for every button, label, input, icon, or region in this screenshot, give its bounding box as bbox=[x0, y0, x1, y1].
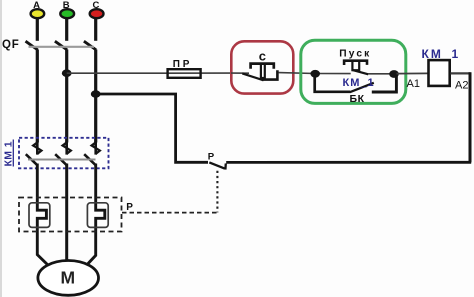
breaker QF linkage bar bbox=[29, 46, 95, 48]
svg-text:М: М bbox=[61, 268, 76, 288]
node on phase C (control return tap) bbox=[91, 90, 101, 98]
svg-text:A1: A1 bbox=[407, 78, 420, 90]
circuit breaker QF label bbox=[2, 39, 20, 51]
stop button SB1 moving blade bbox=[242, 73, 263, 80]
wire control from B to fuse bbox=[67, 72, 168, 74]
motor M1 body bbox=[38, 261, 99, 296]
svg-text:с: с bbox=[259, 48, 266, 63]
wire into stop button bbox=[231, 72, 249, 74]
node on phase B (control tap) bbox=[62, 69, 72, 77]
wire right side drop bbox=[469, 72, 472, 162]
contactor coil KM1 label bbox=[422, 47, 461, 61]
photo edge artifact left bbox=[0, 0, 2, 297]
wire P contact to left drop bbox=[96, 94, 208, 162]
thermal heater element 2 outline bbox=[87, 203, 108, 228]
node left of start button bbox=[310, 70, 320, 78]
thermal relay contact P label bbox=[208, 151, 215, 162]
fuse FU body bbox=[168, 69, 201, 78]
KM1 main contact pole 1 blade bbox=[26, 154, 38, 165]
svg-text:P: P bbox=[208, 151, 215, 162]
KM1 main contact pole 2 blade bbox=[55, 154, 67, 165]
start button SB2 moving blade bbox=[352, 70, 368, 74]
KM1 contacts linkage bar bbox=[28, 159, 96, 161]
svg-text:КМ_1: КМ_1 bbox=[343, 77, 375, 89]
KM1 main contact pole 2 chevrons bbox=[63, 142, 71, 154]
phase terminal A (yellow) bbox=[31, 0, 45, 18]
stop button SB1 actuator cap bbox=[251, 64, 274, 69]
wire start box to coil bbox=[397, 72, 428, 74]
aux contact branch left wire bbox=[315, 74, 351, 92]
phase terminal C (red) bbox=[90, 0, 104, 18]
breaker QF blade pole 1 bbox=[26, 41, 38, 50]
KM1 main contact pole 3 blade bbox=[84, 154, 96, 165]
wire phase B upper bbox=[65, 18, 68, 41]
svg-text:P: P bbox=[126, 202, 133, 213]
wire inside start box right bbox=[368, 73, 397, 75]
fuse FU label ПР bbox=[173, 59, 192, 70]
wire phase C lower with heater step bbox=[86, 164, 105, 266]
wire through fuse bbox=[168, 72, 232, 74]
stop button SB1 fixed contact bracket bbox=[263, 70, 277, 79]
stop button SB1 plunger stem bbox=[261, 65, 265, 78]
svg-text:Пуск: Пуск bbox=[339, 49, 371, 60]
wire phase C mid bbox=[94, 50, 97, 143]
svg-text:A2: A2 bbox=[455, 79, 468, 91]
wire phase C upper bbox=[94, 18, 97, 41]
contactor KM1 vertical label bbox=[3, 140, 15, 167]
KM1 main contact pole 1 upper stub bbox=[36, 141, 39, 155]
KM1 main contact pole 3 upper stub bbox=[94, 141, 97, 155]
wire bottom return bbox=[226, 161, 471, 164]
wire phase B mid bbox=[65, 50, 68, 143]
KM1 main contact pole 1 chevrons bbox=[33, 142, 41, 154]
stop button label с bbox=[259, 48, 266, 63]
thermal relay dashed box bbox=[19, 198, 122, 232]
motor M1 label bbox=[61, 268, 76, 288]
aux contact KM_1 blade bbox=[350, 83, 374, 92]
svg-text:БК: БК bbox=[350, 93, 365, 105]
KM1 main contact pole 3 chevrons bbox=[92, 142, 100, 154]
thermal heater element 1 outline bbox=[29, 203, 50, 228]
start button SB2 plunger stem bbox=[352, 62, 359, 70]
mechanical link dashed horizontal bbox=[122, 212, 219, 214]
thermal relay NC contact blade bbox=[209, 162, 224, 168]
wire phase A mid bbox=[36, 50, 39, 143]
start button highlight box (green) bbox=[301, 40, 406, 103]
phase terminal B (green) bbox=[60, 0, 74, 18]
stop button highlight box (red) bbox=[231, 41, 293, 93]
wire phase A upper bbox=[36, 18, 39, 41]
contactor KM1 dashed outline box bbox=[19, 138, 109, 169]
aux contact branch right wire bbox=[372, 74, 397, 92]
breaker QF blade pole 3 bbox=[84, 41, 96, 50]
wire inside start box left bbox=[315, 73, 351, 75]
wire coil to right drop bbox=[451, 72, 471, 74]
thermal relay P label right bbox=[126, 202, 133, 213]
start button SB2 actuator cap bbox=[344, 61, 367, 65]
contactor coil KM1 body bbox=[429, 60, 450, 86]
mechanical link dotted vertical bbox=[216, 171, 218, 213]
start button label Пуск bbox=[339, 49, 371, 60]
aux contact label КМ_1 bbox=[343, 77, 375, 89]
svg-text:QF: QF bbox=[2, 39, 20, 51]
wire phase A lower with heater step bbox=[37, 164, 49, 266]
node right of start button bbox=[389, 70, 399, 78]
aux contact label БК bbox=[350, 93, 365, 105]
wire phase B lower bbox=[65, 164, 68, 262]
wire stop button to start button bbox=[279, 72, 315, 75]
coil terminal label A2 bbox=[455, 79, 468, 91]
breaker QF blade pole 2 bbox=[55, 41, 67, 50]
thermal relay NC contact tick bbox=[224, 163, 227, 169]
coil terminal label A1 bbox=[407, 78, 420, 90]
KM1 main contact pole 2 upper stub bbox=[65, 141, 68, 155]
